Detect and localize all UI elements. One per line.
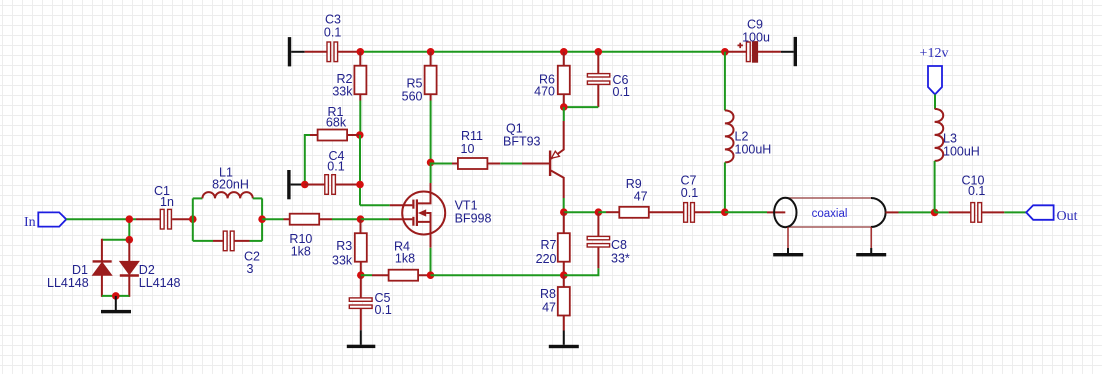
resistor R9 47: [606, 177, 649, 218]
port +12v: [920, 46, 949, 94]
svg-text:470: 470: [534, 84, 555, 98]
node diode bottom: [112, 292, 120, 300]
wire R1 left down to C4 node: [305, 135, 310, 185]
wire tank right vertical: [261, 198, 263, 241]
node R3/R4/C5: [357, 271, 365, 279]
wire C8 node to R9: [598, 211, 606, 213]
wire tank top left: [193, 197, 203, 199]
wire C7 to L2 node: [710, 211, 725, 213]
wire collector down: [563, 198, 565, 212]
wire R3 node to R4: [361, 274, 372, 276]
svg-text:100uH: 100uH: [943, 145, 980, 159]
svg-text:820nH: 820nH: [212, 178, 249, 192]
resistor R1 68k: [310, 105, 360, 141]
svg-text:47: 47: [634, 190, 648, 204]
wire In to C1: [66, 218, 136, 220]
svg-text:BF998: BF998: [455, 212, 492, 226]
node rail R6: [560, 48, 568, 56]
wire R10 to gate node: [332, 218, 361, 220]
node C1 / tank left: [189, 215, 197, 223]
wire diode bottom row: [102, 295, 129, 297]
resistor R11 10: [452, 129, 500, 169]
ground under R8: [549, 331, 579, 349]
capacitor C5 0.1: [349, 275, 392, 330]
wire top supply rail: [360, 51, 725, 53]
wire drain node down: [430, 162, 432, 183]
wire source row to R7: [431, 274, 564, 276]
ground under coax right: [856, 248, 886, 256]
svg-text:100uH: 100uH: [735, 143, 772, 157]
ground top-left at C3: [288, 37, 305, 66]
wire C10 to Out port: [1004, 211, 1026, 213]
resistor R7 220: [536, 212, 570, 275]
capacitor C7 0.1: [649, 173, 710, 222]
wire gate2 feed: [360, 204, 390, 206]
diode D2 LL4148: [120, 239, 181, 297]
svg-text:R8: R8: [540, 287, 556, 301]
capacitor C3 0.1: [305, 13, 361, 62]
wire R11 to Q1 base: [500, 163, 522, 165]
wire R2/R1 node to C4 node: [359, 135, 361, 205]
svg-text:BFT93: BFT93: [503, 134, 541, 148]
ground right of C9: [781, 37, 797, 66]
resistor R5 560: [402, 52, 437, 104]
svg-text:0.1: 0.1: [324, 26, 341, 40]
ground under C5: [347, 330, 376, 348]
svg-text:LL4148: LL4148: [47, 276, 89, 290]
svg-text:C9: C9: [747, 17, 763, 31]
wire to coax: [725, 211, 767, 213]
svg-text:220: 220: [536, 252, 557, 266]
capacitor C2 3: [213, 231, 260, 276]
wire gate1 feed: [361, 218, 389, 220]
resistor R10 1k8: [284, 214, 333, 259]
capacitor C1 1n: [136, 184, 193, 229]
svg-text:R5: R5: [407, 77, 423, 91]
capacitor C8 33*: [587, 212, 630, 268]
inductor L1 820nH: [202, 165, 252, 198]
node diode top: [126, 236, 134, 244]
svg-text:560: 560: [402, 90, 423, 104]
svg-text:0.1: 0.1: [613, 85, 630, 99]
node rail C6: [595, 48, 603, 56]
svg-text:C3: C3: [325, 13, 341, 27]
node gate1 row: [357, 215, 365, 223]
inductor L3 100uH: [935, 109, 980, 161]
node R5/R11/drain: [427, 159, 435, 167]
wire L2 to output row: [724, 162, 726, 212]
wire +12v to L3: [934, 94, 936, 109]
wire rail down to L2: [724, 52, 726, 111]
svg-text:coaxial: coaxial: [812, 208, 848, 220]
svg-text:100u: 100u: [742, 31, 770, 45]
node L3/out: [931, 209, 939, 217]
svg-text:0.1: 0.1: [968, 184, 985, 198]
svg-text:1n: 1n: [160, 195, 174, 209]
resistor R6 470: [534, 52, 570, 107]
svg-text:+12v: +12v: [920, 46, 949, 61]
svg-text:LL4148: LL4148: [139, 276, 181, 290]
node R7 bottom: [560, 271, 568, 279]
wire R6 bottom to C6: [564, 106, 599, 108]
wire tank bottom left: [193, 240, 213, 242]
node collector: [560, 208, 568, 216]
capacitor C9 100u: [725, 17, 781, 62]
svg-text:VT1: VT1: [455, 198, 478, 212]
node In/C1/D junction: [126, 215, 134, 223]
svg-text:1k8: 1k8: [291, 245, 311, 259]
svg-text:In: In: [24, 215, 36, 230]
node C4 right: [356, 181, 364, 189]
wire tank to R10: [262, 218, 283, 220]
wire coax to out node: [899, 211, 935, 213]
svg-text:3: 3: [247, 262, 254, 276]
wire tank bottom right: [250, 240, 263, 242]
svg-text:0.1: 0.1: [375, 303, 392, 317]
node rail C9/L2: [721, 48, 729, 56]
transistor Q1 BFT93: [503, 121, 564, 198]
wire R5 to drain node: [430, 101, 432, 163]
wire down to diodes: [128, 219, 130, 240]
svg-text:68k: 68k: [326, 116, 347, 130]
svg-text:L3: L3: [943, 131, 957, 145]
node C4 left: [301, 181, 309, 189]
wire tank top right: [253, 197, 262, 199]
wire out node to C10: [935, 211, 949, 213]
wire tank left vertical: [192, 198, 194, 241]
svg-text:R3: R3: [336, 239, 352, 253]
wire diode top row: [102, 239, 129, 241]
port Out: [1026, 205, 1077, 224]
svg-text:0.1: 0.1: [327, 160, 344, 174]
inductor L2 100uH: [725, 110, 771, 162]
wire emitter node down: [563, 107, 565, 121]
svg-text:10: 10: [461, 142, 475, 156]
resistor R2 33k: [332, 52, 366, 101]
wire R2 bottom to R1 node: [359, 101, 361, 136]
node emitter/R6: [560, 103, 568, 111]
wire R11 left: [431, 163, 452, 165]
svg-text:33*: 33*: [611, 252, 630, 266]
svg-text:Out: Out: [1057, 209, 1078, 224]
resistor R4 1k8: [372, 240, 431, 281]
node tank right: [258, 215, 266, 223]
svg-text:0.1: 0.1: [681, 186, 698, 200]
svg-text:1k8: 1k8: [395, 251, 415, 265]
resistor R3 33k: [332, 219, 367, 275]
svg-text:C8: C8: [611, 238, 627, 252]
ground left at C4: [287, 170, 305, 199]
coaxial cable W1: [767, 198, 899, 248]
svg-text:33k: 33k: [332, 254, 353, 268]
svg-text:Q1: Q1: [506, 122, 523, 136]
node L2/C7/coax: [721, 208, 729, 216]
wire collector row: [564, 211, 599, 213]
transistor VT1 BF998: [389, 183, 492, 248]
diode D1 LL4148: [47, 239, 112, 297]
ground under diodes: [101, 296, 131, 313]
wire source down to R4 node: [430, 248, 432, 275]
svg-text:R11: R11: [461, 129, 483, 143]
ground under coax left: [773, 248, 803, 256]
svg-text:33k: 33k: [332, 85, 353, 99]
resistor R8 47: [540, 275, 570, 330]
wire L3 to out node: [934, 161, 936, 213]
node rail R5: [427, 48, 435, 56]
node C8 top: [595, 208, 603, 216]
node rail R2: [357, 48, 365, 56]
svg-text:R7: R7: [541, 238, 557, 252]
capacitor C4 0.1: [305, 149, 360, 195]
node source/R4: [427, 271, 435, 279]
svg-text:47: 47: [542, 301, 556, 315]
port In: [24, 212, 66, 229]
wire C8 bottom to R7 node: [564, 268, 599, 275]
capacitor C6 0.1: [587, 52, 630, 107]
svg-text:L2: L2: [735, 129, 749, 143]
node R1 right: [356, 131, 364, 139]
capacitor C10 0.1: [949, 174, 1005, 223]
